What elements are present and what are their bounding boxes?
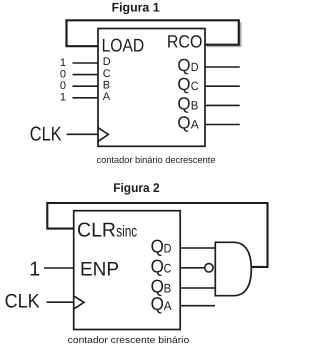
wire output QA (fig1) bbox=[205, 124, 240, 126]
svg-text:1: 1 bbox=[60, 57, 66, 69]
pin label QD (fig1) bbox=[177, 55, 198, 75]
svg-text:C: C bbox=[191, 79, 199, 93]
svg-text:Q: Q bbox=[151, 256, 164, 277]
svg-text:RCO: RCO bbox=[167, 32, 203, 52]
svg-text:1: 1 bbox=[29, 258, 40, 280]
wire feedback RCO to LOAD (fig1) bbox=[67, 20, 239, 46]
svg-text:D: D bbox=[164, 242, 172, 256]
svg-text:B: B bbox=[164, 282, 172, 296]
wire output QC (fig1) bbox=[205, 85, 240, 87]
pin label QB (fig1) bbox=[177, 93, 198, 113]
wire input C (fig1) bbox=[73, 74, 99, 76]
svg-text:CLR: CLR bbox=[77, 220, 116, 242]
svg-text:B: B bbox=[103, 79, 110, 91]
pin label QA (fig1) bbox=[177, 113, 198, 133]
svg-text:Q: Q bbox=[151, 236, 164, 257]
wire shadow (fig1 feedback) bbox=[207, 22, 241, 46]
svg-text:B: B bbox=[191, 98, 199, 112]
svg-text:D: D bbox=[191, 60, 199, 74]
wire input D (fig1) bbox=[73, 62, 99, 64]
wire feedback NAND output to CLR (fig2) bbox=[47, 203, 267, 267]
wire QD to NAND (fig2) bbox=[180, 247, 215, 249]
svg-text:Q: Q bbox=[151, 293, 164, 314]
wire CLK (fig2) bbox=[47, 301, 74, 303]
svg-text:CLK: CLK bbox=[30, 123, 62, 145]
wire output QB (fig1) bbox=[205, 104, 240, 106]
svg-text:Q: Q bbox=[177, 93, 190, 113]
svg-text:A: A bbox=[103, 91, 111, 103]
counter U2 body bbox=[74, 211, 181, 330]
wire QA stub (fig2) bbox=[180, 305, 215, 307]
counter U1 body bbox=[98, 29, 205, 147]
wire CLK (fig1) bbox=[67, 133, 98, 135]
wire input A (fig1) bbox=[73, 97, 99, 99]
svg-text:Q: Q bbox=[177, 74, 190, 94]
svg-text:LOAD: LOAD bbox=[102, 35, 145, 56]
pin label CLRsinc bbox=[77, 220, 137, 242]
pin label QB (fig2) bbox=[151, 276, 172, 297]
wire output QD (fig1) bbox=[205, 66, 240, 68]
svg-text:Q: Q bbox=[177, 113, 190, 133]
svg-text:Figura 2: Figura 2 bbox=[113, 181, 159, 195]
wire QC to bubble (fig2) bbox=[180, 267, 204, 269]
svg-text:contador binário decrescente: contador binário decrescente bbox=[97, 155, 216, 166]
wire input B (fig1) bbox=[73, 85, 99, 87]
svg-text:0: 0 bbox=[60, 68, 66, 80]
svg-text:C: C bbox=[103, 68, 111, 80]
wire QB to NAND (fig2) bbox=[180, 287, 215, 289]
svg-text:CLK: CLK bbox=[5, 291, 40, 313]
svg-text:0: 0 bbox=[60, 80, 66, 92]
clock edge triangle (fig2) bbox=[74, 296, 84, 309]
pin label QC (fig1) bbox=[177, 74, 198, 94]
svg-text:Q: Q bbox=[177, 55, 190, 75]
svg-text:Figura 1: Figura 1 bbox=[112, 1, 160, 15]
pin label QC (fig2) bbox=[151, 256, 172, 277]
svg-text:contador crescente binário: contador crescente binário bbox=[68, 335, 190, 346]
pin label QA (fig2) bbox=[151, 293, 173, 314]
svg-text:sinc: sinc bbox=[116, 223, 137, 240]
wire ENP (fig2) bbox=[44, 267, 74, 269]
svg-text:C: C bbox=[164, 262, 172, 276]
svg-text:D: D bbox=[103, 56, 111, 68]
clock edge triangle (fig1) bbox=[98, 128, 108, 142]
svg-text:ENP: ENP bbox=[80, 259, 119, 281]
pin label QD (fig2) bbox=[151, 236, 172, 257]
svg-text:A: A bbox=[164, 299, 173, 313]
inverter bubble on QC input bbox=[205, 264, 213, 272]
AND gate U3 bbox=[215, 242, 251, 295]
svg-text:A: A bbox=[191, 118, 199, 132]
svg-text:1: 1 bbox=[60, 92, 66, 104]
